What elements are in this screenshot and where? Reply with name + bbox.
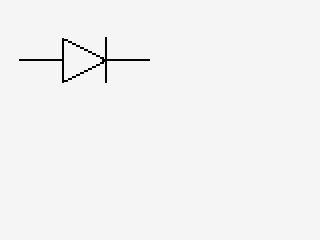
- diode D1 symbol: [62, 37, 107, 83]
- anode triangle bottom edge: [64, 62, 104, 82]
- anode triangle top edge: [64, 39, 104, 59]
- anode triangle apex: [102, 59, 105, 62]
- wire anode lead: [19, 59, 63, 61]
- anode triangle left edge: [62, 38, 64, 83]
- wire cathode lead: [107, 59, 150, 61]
- cathode bar: [105, 37, 107, 83]
